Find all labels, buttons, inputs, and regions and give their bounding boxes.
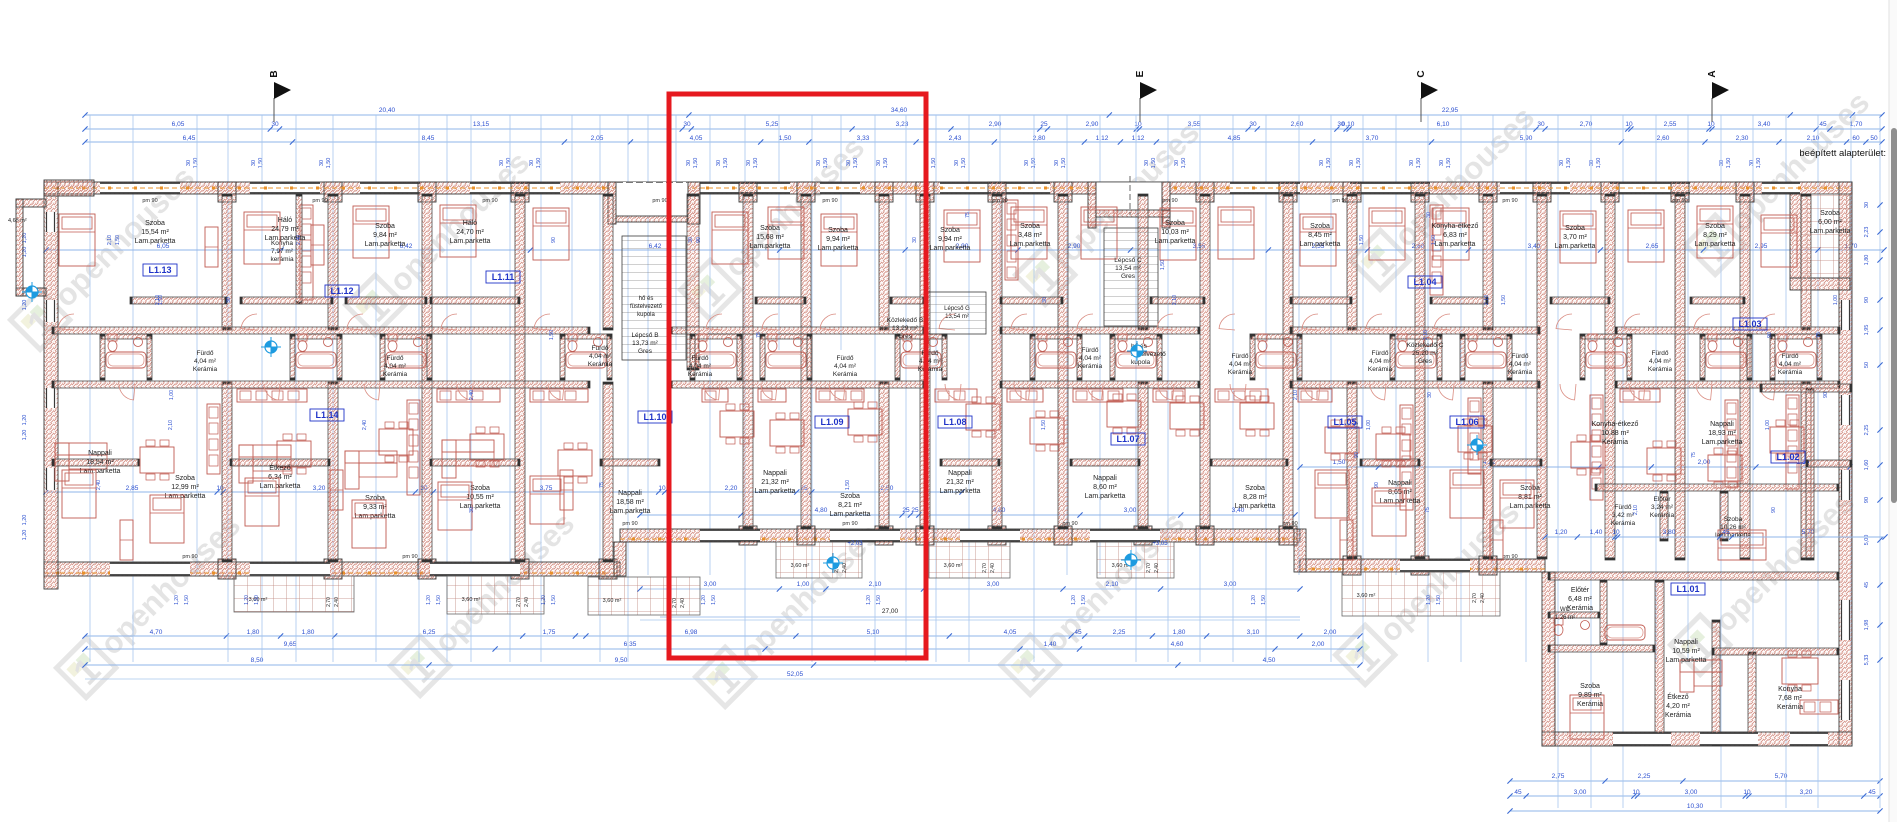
svg-text:2,40: 2,40 (362, 420, 368, 430)
svg-text:4,04 m²: 4,04 m² (589, 353, 612, 360)
svg-text:25,20 m²: 25,20 m² (1412, 350, 1438, 357)
svg-text:Szoba: Szoba (1165, 220, 1185, 227)
svg-text:3,60 m²: 3,60 m² (603, 598, 622, 604)
svg-text:1,50: 1,50 (1566, 158, 1572, 169)
svg-text:75: 75 (1816, 332, 1822, 338)
svg-text:20,40: 20,40 (379, 107, 396, 114)
svg-text:30: 30 (686, 160, 692, 166)
svg-text:3,70: 3,70 (1366, 135, 1379, 142)
svg-text:Kerámia: Kerámia (1650, 512, 1675, 519)
svg-text:1,50: 1,50 (549, 330, 555, 340)
svg-text:Fürdő: Fürdő (1082, 347, 1099, 354)
svg-text:30: 30 (251, 160, 257, 166)
svg-text:18,93 m²: 18,93 m² (1708, 430, 1736, 437)
svg-text:Szoba: Szoba (1245, 485, 1265, 492)
svg-text:1,50: 1,50 (1356, 158, 1362, 169)
svg-text:Kerámia: Kerámia (1368, 366, 1393, 373)
svg-text:1,20: 1,20 (22, 530, 28, 541)
svg-text:Lam.parketta: Lam.parketta (930, 245, 971, 252)
svg-text:3,00: 3,00 (1574, 789, 1587, 796)
svg-text:2,40: 2,40 (680, 598, 686, 608)
svg-text:pm 90: pm 90 (1672, 198, 1687, 204)
svg-text:75: 75 (1425, 507, 1431, 513)
svg-text:Fürdő: Fürdő (1232, 353, 1249, 360)
svg-text:1,98: 1,98 (1864, 620, 1870, 631)
svg-text:kerámia: kerámia (270, 256, 294, 263)
svg-text:Kerámia: Kerámia (1567, 605, 1593, 612)
svg-text:5,00: 5,00 (1864, 535, 1870, 546)
svg-text:15,54 m²: 15,54 m² (141, 229, 169, 236)
svg-text:Konyha-étkező: Konyha-étkező (1432, 223, 1479, 230)
svg-text:2,55: 2,55 (1664, 121, 1677, 128)
svg-text:8,45: 8,45 (422, 135, 435, 142)
svg-text:L1.03: L1.03 (1738, 319, 1761, 329)
svg-text:3,42 m²: 3,42 m² (1612, 512, 1635, 519)
svg-text:2,20: 2,20 (725, 485, 738, 492)
svg-text:Lam.parketta: Lam.parketta (1510, 503, 1551, 510)
svg-text:4,70: 4,70 (150, 629, 163, 636)
svg-text:L1.01: L1.01 (1676, 584, 1699, 594)
svg-text:Lam.parketta: Lam.parketta (1235, 503, 1276, 510)
svg-text:3,60 m²: 3,60 m² (944, 563, 963, 569)
svg-text:1,50: 1,50 (193, 158, 199, 169)
svg-text:30: 30 (846, 160, 852, 166)
svg-text:L1.10: L1.10 (643, 412, 666, 422)
svg-text:3,55: 3,55 (1188, 121, 1201, 128)
svg-text:Lépcső B: Lépcső B (631, 332, 658, 339)
svg-text:3,00: 3,00 (987, 581, 1000, 588)
svg-text:Lam.parketta: Lam.parketta (1666, 657, 1707, 664)
svg-text:2,40: 2,40 (334, 597, 340, 607)
svg-text:L1.04: L1.04 (1413, 277, 1436, 287)
svg-text:1,50: 1,50 (779, 135, 792, 142)
svg-text:L1.11: L1.11 (492, 272, 515, 282)
svg-text:1,80: 1,80 (1173, 629, 1186, 636)
svg-text:Nappali: Nappali (1388, 480, 1412, 487)
svg-text:1,20: 1,20 (1071, 595, 1077, 605)
svg-text:Háló: Háló (278, 217, 293, 224)
svg-text:2,40: 2,40 (1154, 563, 1160, 573)
svg-text:2,10: 2,10 (107, 235, 113, 245)
svg-text:6,45: 6,45 (183, 135, 196, 142)
svg-text:7,97 m²: 7,97 m² (271, 248, 294, 255)
svg-text:3,60 m²: 3,60 m² (791, 563, 810, 569)
svg-text:1,50: 1,50 (1416, 158, 1422, 169)
svg-text:Fürdő: Fürdő (692, 355, 709, 362)
svg-text:9,89 m²: 9,89 m² (1578, 692, 1602, 699)
svg-text:13,54 m²: 13,54 m² (1115, 265, 1141, 272)
svg-text:1,20: 1,20 (22, 300, 28, 311)
svg-text:60: 60 (1852, 135, 1860, 142)
svg-text:Kerámia: Kerámia (1778, 369, 1803, 376)
svg-text:Kerámia: Kerámia (588, 361, 613, 368)
svg-text:1,50: 1,50 (961, 158, 967, 169)
svg-text:1,50: 1,50 (693, 158, 699, 169)
svg-text:Nappali: Nappali (948, 470, 972, 477)
svg-text:1,50: 1,50 (436, 595, 442, 605)
svg-text:1,95: 1,95 (1864, 325, 1870, 336)
svg-text:pm 90: pm 90 (1502, 198, 1517, 204)
svg-text:30: 30 (688, 237, 694, 243)
svg-text:Fürdő: Fürdő (1512, 353, 1529, 360)
svg-text:9,50: 9,50 (615, 657, 628, 664)
svg-text:30: 30 (876, 160, 882, 166)
svg-text:27,00: 27,00 (882, 608, 899, 615)
svg-text:Lam.parketta: Lam.parketta (450, 238, 491, 245)
svg-text:3,00: 3,00 (1124, 507, 1137, 514)
svg-text:L1.02: L1.02 (1776, 452, 1799, 462)
svg-text:Lépcső G: Lépcső G (944, 306, 970, 312)
svg-text:Fürdő: Fürdő (1372, 350, 1389, 357)
svg-text:90: 90 (696, 237, 702, 243)
svg-text:6,34 m²: 6,34 m² (268, 474, 292, 481)
svg-text:Étkező: Étkező (1667, 692, 1689, 701)
svg-text:Kerámia: Kerámia (1611, 520, 1636, 527)
svg-text:2,25: 2,25 (1638, 773, 1651, 780)
svg-text:Lam.parketta: Lam.parketta (1085, 493, 1126, 500)
svg-text:Fürdő: Fürdő (837, 355, 854, 362)
svg-text:Fürdő: Fürdő (592, 345, 609, 352)
svg-text:Lépcső C: Lépcső C (1114, 257, 1142, 264)
svg-text:Nappali: Nappali (1093, 475, 1117, 482)
svg-text:30: 30 (1426, 212, 1432, 218)
svg-text:Nappali: Nappali (618, 490, 642, 497)
svg-text:Közlekedő B: Közlekedő B (887, 317, 924, 324)
svg-text:1,12: 1,12 (1096, 135, 1109, 142)
svg-text:2,40: 2,40 (96, 480, 102, 490)
svg-text:90: 90 (1864, 297, 1870, 303)
svg-text:4,04 m²: 4,04 m² (1229, 361, 1252, 368)
svg-text:Kerámia: Kerámia (1577, 701, 1603, 708)
svg-text:3,70 m²: 3,70 m² (1563, 234, 1587, 241)
svg-text:+3,05: +3,05 (1152, 541, 1168, 547)
svg-text:1,50: 1,50 (876, 595, 882, 605)
svg-text:1,50: 1,50 (1446, 158, 1452, 169)
svg-text:75: 75 (965, 212, 971, 218)
svg-text:4,05: 4,05 (1004, 629, 1017, 636)
svg-text:1,50: 1,50 (184, 595, 190, 605)
svg-text:1,50: 1,50 (326, 158, 332, 169)
svg-text:Kerámia: Kerámia (1777, 704, 1803, 711)
svg-text:4,04 m²: 4,04 m² (1369, 358, 1392, 365)
svg-text:3,33: 3,33 (857, 135, 870, 142)
svg-text:Előtér: Előtér (1654, 496, 1672, 503)
svg-text:Konyha-étkező: Konyha-étkező (1592, 421, 1639, 428)
svg-text:1,20: 1,20 (866, 595, 872, 605)
svg-text:Szoba: Szoba (375, 223, 395, 230)
svg-text:75: 75 (756, 332, 762, 338)
svg-text:45: 45 (1864, 582, 1870, 588)
svg-text:90: 90 (551, 237, 557, 243)
svg-text:2,10: 2,10 (1423, 330, 1429, 340)
svg-text:30: 30 (319, 160, 325, 166)
svg-text:Lam.parketta: Lam.parketta (1010, 241, 1051, 248)
svg-text:3,60 m²: 3,60 m² (462, 597, 481, 603)
svg-text:5,33: 5,33 (1864, 655, 1870, 666)
svg-text:2,60: 2,60 (1291, 121, 1304, 128)
svg-text:L1.08: L1.08 (943, 417, 966, 427)
svg-text:1,50: 1,50 (1181, 158, 1187, 169)
svg-text:Konyha: Konyha (1778, 686, 1802, 693)
svg-text:4,04 m²: 4,04 m² (1779, 361, 1802, 368)
svg-text:6,10: 6,10 (1437, 121, 1450, 128)
svg-text:Lam.parketta: Lam.parketta (365, 241, 406, 248)
svg-text:1,50: 1,50 (254, 595, 260, 605)
svg-text:pm 90: pm 90 (1162, 198, 1177, 204)
svg-text:L1.09: L1.09 (820, 417, 843, 427)
svg-text:Kerámia: Kerámia (1078, 363, 1103, 370)
svg-text:2,60: 2,60 (1657, 135, 1670, 142)
svg-text:45: 45 (1868, 789, 1876, 796)
svg-text:45: 45 (1514, 789, 1522, 796)
svg-text:3,40: 3,40 (1758, 121, 1771, 128)
svg-text:2,40: 2,40 (990, 563, 996, 573)
svg-text:3,80: 3,80 (1663, 529, 1676, 536)
svg-text:Szoba: Szoba (1020, 223, 1040, 230)
svg-text:90: 90 (1374, 482, 1380, 488)
svg-text:Lam.parketta: Lam.parketta (165, 493, 206, 500)
svg-text:pm 90: pm 90 (1062, 521, 1077, 527)
svg-text:1,50: 1,50 (258, 158, 264, 169)
svg-text:6,48 m²: 6,48 m² (1568, 596, 1592, 603)
svg-text:4,04 m²: 4,04 m² (689, 363, 712, 370)
svg-text:pm 90: pm 90 (142, 198, 157, 204)
svg-text:Gres: Gres (638, 348, 653, 355)
svg-text:7,68 m²: 7,68 m² (1778, 695, 1802, 702)
svg-text:Szoba: Szoba (365, 495, 385, 502)
svg-text:1,50: 1,50 (1726, 158, 1732, 169)
svg-text:90: 90 (1823, 392, 1829, 398)
svg-text:2,70: 2,70 (1146, 563, 1152, 573)
svg-text:1,20: 1,20 (244, 595, 250, 605)
svg-text:1,12: 1,12 (1132, 135, 1145, 142)
svg-text:2,25: 2,25 (1113, 629, 1126, 636)
svg-text:Kerámia: Kerámia (193, 366, 218, 373)
svg-text:Szoba: Szoba (1820, 210, 1840, 217)
svg-text:2,80: 2,80 (1033, 135, 1046, 142)
svg-text:2,00: 2,00 (1698, 459, 1711, 466)
svg-text:4,60: 4,60 (1171, 641, 1184, 648)
svg-text:kupola: kupola (1131, 359, 1151, 366)
svg-text:4,04 m²: 4,04 m² (1509, 361, 1532, 368)
svg-text:13,29 m²: 13,29 m² (892, 325, 918, 332)
svg-text:B: B (269, 70, 280, 77)
svg-text:4,04 m²: 4,04 m² (834, 363, 857, 370)
svg-text:12,99 m²: 12,99 m² (171, 484, 199, 491)
svg-text:4,80: 4,80 (815, 507, 828, 514)
svg-text:50: 50 (1864, 362, 1870, 368)
svg-text:1,20: 1,20 (174, 595, 180, 605)
svg-text:Nappali: Nappali (88, 450, 112, 457)
svg-text:Nappali: Nappali (763, 470, 787, 477)
svg-text:L1.14: L1.14 (315, 410, 338, 420)
svg-text:24,70 m²: 24,70 m² (456, 229, 484, 236)
svg-text:1,20: 1,20 (22, 430, 28, 441)
svg-text:1,50: 1,50 (711, 595, 717, 605)
svg-text:2,10: 2,10 (1633, 505, 1639, 515)
svg-text:2,85: 2,85 (126, 485, 139, 492)
svg-text:1,50: 1,50 (1501, 295, 1507, 305)
svg-text:1,60: 1,60 (1864, 460, 1870, 471)
svg-text:8,60 m²: 8,60 m² (1093, 484, 1117, 491)
svg-text:1,50: 1,50 (1061, 158, 1067, 169)
svg-text:75: 75 (599, 482, 605, 488)
svg-text:30: 30 (1042, 297, 1048, 303)
svg-text:4,04 m²: 4,04 m² (1649, 358, 1672, 365)
svg-text:2,70: 2,70 (982, 563, 988, 573)
svg-text:4,04 m²: 4,04 m² (1079, 355, 1102, 362)
svg-text:Étkező: Étkező (269, 463, 291, 472)
svg-text:1,50: 1,50 (1359, 235, 1365, 245)
svg-text:1,20: 1,20 (701, 595, 707, 605)
svg-text:90: 90 (1864, 497, 1870, 503)
svg-text:2,90: 2,90 (1068, 243, 1081, 250)
svg-text:1,50: 1,50 (1436, 595, 1442, 605)
svg-text:3,48 m²: 3,48 m² (1018, 232, 1042, 239)
svg-text:1,00: 1,00 (1366, 420, 1372, 430)
svg-text:30: 30 (912, 237, 918, 243)
svg-text:30: 30 (1319, 160, 1325, 166)
svg-text:30: 30 (186, 160, 192, 166)
svg-text:1,20: 1,20 (22, 415, 28, 426)
svg-text:1,20: 1,20 (1426, 595, 1432, 605)
svg-text:30: 30 (499, 160, 505, 166)
svg-text:Közlekedő C: Közlekedő C (1407, 342, 1444, 349)
svg-text:34,60: 34,60 (891, 107, 908, 114)
svg-text:Kerámia: Kerámia (1508, 369, 1533, 376)
svg-text:Lam.parketta: Lam.parketta (610, 508, 651, 515)
svg-text:9,65: 9,65 (284, 641, 297, 648)
svg-text:2,30: 2,30 (1736, 135, 1749, 142)
svg-text:30: 30 (1054, 160, 1060, 166)
svg-text:6,98: 6,98 (685, 629, 698, 636)
svg-text:pm 90: pm 90 (1332, 198, 1347, 204)
svg-text:3,10: 3,10 (1247, 629, 1260, 636)
svg-text:30: 30 (1427, 392, 1433, 398)
svg-text:50: 50 (1870, 135, 1878, 142)
svg-text:2,70: 2,70 (1472, 593, 1478, 603)
svg-text:8,28 m²: 8,28 m² (1243, 494, 1267, 501)
svg-text:1,50: 1,50 (1756, 158, 1762, 169)
svg-text:1,50: 1,50 (158, 295, 164, 305)
svg-text:1,70: 1,70 (1850, 121, 1863, 128)
svg-text:Kerámia: Kerámia (1665, 712, 1691, 719)
svg-text:Lam.parketta: Lam.parketta (1435, 241, 1476, 248)
svg-text:Lam.parketta: Lam.parketta (1810, 228, 1851, 235)
svg-text:45: 45 (1819, 121, 1827, 128)
svg-text:30: 30 (1719, 160, 1725, 166)
svg-text:2,70: 2,70 (326, 597, 332, 607)
svg-text:Szoba: Szoba (1310, 223, 1330, 230)
svg-text:1,50: 1,50 (1160, 260, 1166, 270)
svg-text:kupola: kupola (637, 312, 655, 318)
svg-text:18,54 m²: 18,54 m² (86, 459, 114, 466)
svg-text:10,30: 10,30 (1687, 803, 1704, 810)
svg-text:Lam.parketta: Lam.parketta (355, 513, 396, 520)
svg-text:1,75: 1,75 (543, 629, 556, 636)
svg-text:75: 75 (1691, 452, 1697, 458)
svg-text:1,20: 1,20 (1555, 529, 1568, 536)
svg-text:Szoba: Szoba (828, 227, 848, 234)
svg-text:L1.13: L1.13 (148, 265, 171, 275)
svg-text:2,05: 2,05 (591, 135, 604, 142)
svg-text:pm 90: pm 90 (842, 521, 857, 527)
svg-text:1,50: 1,50 (883, 158, 889, 169)
svg-text:90: 90 (1767, 332, 1773, 338)
svg-text:Lam.parketta: Lam.parketta (830, 511, 871, 518)
svg-text:Gres: Gres (898, 333, 913, 340)
svg-text:10,88 m²: 10,88 m² (1601, 430, 1629, 437)
svg-text:2,65: 2,65 (1646, 243, 1659, 250)
svg-text:13,15: 13,15 (473, 121, 490, 128)
svg-text:C: C (1416, 70, 1427, 77)
svg-text:4,05: 4,05 (690, 135, 703, 142)
svg-text:1,26 m²: 1,26 m² (1555, 615, 1575, 621)
svg-text:30: 30 (1174, 160, 1180, 166)
svg-text:Szoba: Szoba (1565, 225, 1585, 232)
svg-text:Lam.parketta: Lam.parketta (750, 243, 791, 250)
svg-text:Szoba: Szoba (175, 475, 195, 482)
svg-text:1,50: 1,50 (551, 595, 557, 605)
svg-text:Lam.parketta: Lam.parketta (755, 488, 796, 495)
svg-text:21,32 m²: 21,32 m² (761, 479, 789, 486)
svg-text:5,10: 5,10 (867, 629, 880, 636)
svg-text:30: 30 (226, 297, 232, 303)
svg-text:1,20: 1,20 (426, 595, 432, 605)
svg-text:52,05: 52,05 (787, 671, 804, 678)
svg-text:pm 90: pm 90 (182, 554, 197, 560)
svg-text:2,23: 2,23 (1864, 227, 1870, 238)
svg-text:2,10: 2,10 (1172, 295, 1178, 305)
svg-text:30: 30 (746, 160, 752, 166)
svg-text:Kerámia: Kerámia (1228, 369, 1253, 376)
svg-text:1,40: 1,40 (1590, 529, 1603, 536)
svg-text:pm 90: pm 90 (992, 198, 1007, 204)
svg-text:Kerámia: Kerámia (688, 371, 713, 378)
svg-text:4,04 m²: 4,04 m² (919, 358, 942, 365)
svg-text:1,50: 1,50 (1431, 235, 1437, 245)
svg-text:+2,03: +2,03 (847, 541, 863, 547)
svg-text:Háló: Háló (463, 220, 478, 227)
svg-text:L1.06: L1.06 (1455, 417, 1478, 427)
svg-text:Lam.parketta: Lam.parketta (260, 483, 301, 490)
svg-text:Kerámia: Kerámia (383, 371, 408, 378)
svg-text:2,10: 2,10 (168, 420, 174, 430)
svg-text:8,21 m²: 8,21 m² (838, 502, 862, 509)
svg-text:Lam.parketta: Lam.parketta (1155, 238, 1196, 245)
svg-text:1,50: 1,50 (1261, 595, 1267, 605)
svg-text:Szoba: Szoba (1724, 516, 1743, 523)
svg-text:30: 30 (1409, 160, 1415, 166)
svg-text:3,20: 3,20 (1800, 789, 1813, 796)
svg-text:9,33 m²: 9,33 m² (363, 504, 387, 511)
svg-text:Lam.parketta: Lam.parketta (818, 245, 859, 252)
svg-text:L1.07: L1.07 (1116, 434, 1139, 444)
svg-text:Fürdő: Fürdő (1615, 504, 1632, 511)
svg-text:pm 90: pm 90 (1282, 521, 1297, 527)
svg-text:Gres: Gres (1418, 358, 1433, 365)
svg-text:4,85: 4,85 (1228, 135, 1241, 142)
svg-text:3,24 m²: 3,24 m² (1651, 504, 1674, 511)
svg-text:beépített alapterület:: beépített alapterület: (1799, 148, 1886, 159)
svg-text:3,00: 3,00 (1224, 581, 1237, 588)
svg-text:2,90: 2,90 (1086, 121, 1099, 128)
svg-text:6,00 m²: 6,00 m² (1818, 219, 1842, 226)
svg-text:18,58 m²: 18,58 m² (616, 499, 644, 506)
svg-text:Fürdő: Fürdő (1652, 350, 1669, 357)
svg-text:1,00: 1,00 (1765, 420, 1771, 430)
svg-text:1,50: 1,50 (823, 158, 829, 169)
